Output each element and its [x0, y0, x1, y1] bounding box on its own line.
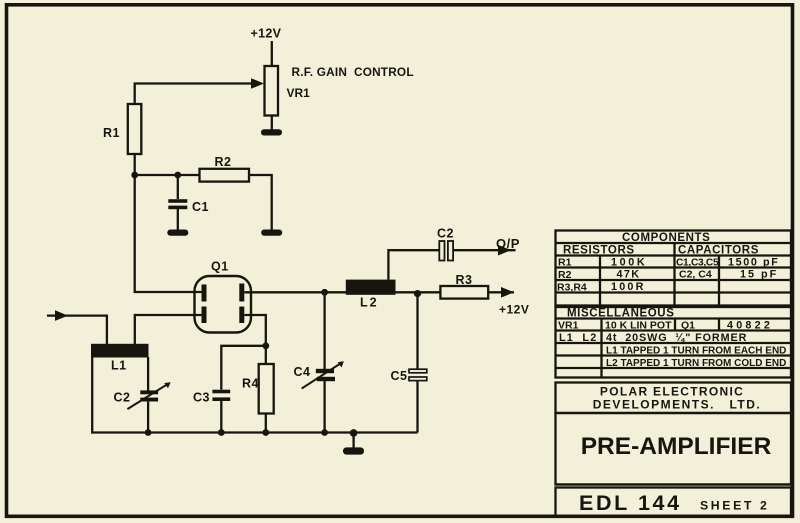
svg-text:C2, C4: C2, C4 [679, 269, 712, 281]
wire C5 top lead [416, 293, 418, 370]
wire C5 bottom to bus [416, 381, 418, 433]
wire C4 top lead [323, 292, 325, 370]
svg-text:C3: C3 [193, 391, 210, 405]
ground main [343, 447, 364, 454]
capacitor C3 plates [212, 390, 230, 394]
svg-text:R2: R2 [215, 155, 232, 169]
svg-text:DEVELOPMENTS. LTD.: DEVELOPMENTS. LTD. [593, 398, 761, 412]
capacitor C5 plates [409, 369, 427, 373]
C4 trimmer arrow [302, 364, 340, 389]
svg-text:VR1: VR1 [287, 86, 311, 100]
svg-text:C1: C1 [192, 200, 209, 214]
arrow wiper into VR1 [251, 78, 264, 89]
title box PRE-AMPLIFIER [556, 413, 792, 485]
svg-text:Q1: Q1 [681, 320, 695, 332]
wire C1 top lead [177, 175, 179, 199]
svg-text:O/P: O/P [496, 236, 520, 251]
svg-text:C1,C3,C5: C1,C3,C5 [676, 258, 719, 269]
resistor R4 body [259, 364, 274, 414]
svg-text:C4: C4 [294, 365, 311, 379]
wire VR1 top to +12V [271, 41, 273, 66]
svg-text:15 pF: 15 pF [740, 269, 778, 281]
potentiometer VR1 body [265, 66, 279, 116]
svg-text:CAPACITORS: CAPACITORS [678, 245, 759, 257]
drawing number box EDL 144 SHEET 2 [556, 488, 792, 517]
junction C4 tap [321, 289, 328, 296]
svg-text:L1: L1 [111, 359, 127, 373]
svg-text:1500 pF: 1500 pF [728, 257, 779, 269]
wire Q1 drain line to R3 [244, 291, 440, 293]
components table [556, 231, 792, 306]
ground under R2 wire [261, 230, 282, 236]
Q1 drain bar [239, 284, 244, 302]
resistor R1 body [128, 104, 142, 154]
junction source node [262, 342, 269, 349]
wire L1 right side to C2 [147, 357, 149, 391]
svg-text:R3: R3 [456, 273, 473, 287]
capacitor C4 (variable) plates [316, 369, 334, 373]
svg-text:4t 20SWG ¼" FORMER: 4t 20SWG ¼" FORMER [606, 332, 747, 344]
junction C5 tap [414, 290, 421, 297]
wire VR1 bottom [271, 116, 273, 130]
wire ground stem [352, 433, 354, 448]
svg-text:R3,R4: R3,R4 [557, 282, 587, 294]
svg-text:+12V: +12V [499, 303, 529, 317]
svg-text:L2 TAPPED 1 TURN FROM COLD E: L2 TAPPED 1 TURN FROM COLD END [606, 358, 786, 369]
capacitor C1 plates [168, 199, 187, 203]
wire C2 bottom to bus [147, 402, 149, 433]
wire L1 left side down to bus [92, 357, 417, 433]
wire Q1 source to R4 [244, 315, 265, 364]
svg-text:100R: 100R [611, 281, 646, 293]
svg-text:VR1: VR1 [558, 320, 579, 332]
wire R4 bottom to bus [265, 414, 267, 433]
svg-text:L2: L2 [360, 296, 379, 310]
input arrowhead [55, 310, 68, 321]
svg-text:R.F. GAIN CONTROL: R.F. GAIN CONTROL [292, 65, 414, 79]
svg-text:EDL 144: EDL 144 [579, 491, 682, 515]
svg-text:L1 L2: L1 L2 [559, 332, 597, 344]
wire node to R2 [135, 174, 200, 176]
junction ground tap on bus [350, 429, 358, 437]
wire C3 bottom to bus [220, 401, 222, 433]
capacitor C2 (variable) plates [140, 390, 158, 394]
svg-text:47K: 47K [617, 269, 641, 281]
inductor L1 bar [91, 344, 149, 358]
+12V arrowhead [501, 287, 514, 298]
junction C4/bus [321, 429, 328, 436]
double separator line [556, 483, 792, 485]
wire R1 bottom down to gate1 and right into Q1 [135, 154, 202, 292]
svg-text:MISCELLANEOUS: MISCELLANEOUS [567, 308, 674, 320]
Q1 gate1 bar [202, 285, 207, 302]
C2 trimmer arrow [127, 385, 166, 409]
svg-text:POLAR ELECTRONIC: POLAR ELECTRONIC [600, 385, 744, 399]
capacitor C2 (output coupling) plates [439, 241, 444, 261]
company box [556, 383, 792, 414]
wire R2 right to ground [249, 175, 272, 230]
svg-text:SHEET 2: SHEET 2 [700, 499, 769, 513]
wire L2 top to C2 coupling [388, 250, 439, 279]
junction R4/bus [262, 429, 269, 436]
resistor R3 body [440, 286, 488, 299]
svg-text:COMPONENTS: COMPONENTS [622, 232, 710, 244]
svg-text:R1: R1 [103, 126, 120, 140]
junction C3/bus [218, 429, 225, 436]
resistor R2 body [200, 169, 250, 182]
wire C4 bottom to bus [323, 380, 325, 433]
ground under C1 [167, 230, 188, 236]
wire R3 to +12V [488, 291, 514, 293]
inductor L2 bar [346, 280, 396, 295]
input arrow wire [47, 316, 107, 344]
svg-text:40822: 40822 [727, 320, 773, 332]
junction node at C1 tap [174, 172, 181, 179]
Q1 source bar [239, 307, 244, 324]
transistor Q1 envelope [195, 276, 252, 333]
junction node at R1 bottom [131, 172, 138, 179]
ground under VR1 [261, 129, 282, 135]
svg-text:R4: R4 [242, 377, 259, 391]
svg-text:+12V: +12V [251, 27, 282, 41]
svg-text:RESISTORS: RESISTORS [563, 245, 635, 257]
svg-text:R2: R2 [558, 269, 572, 281]
Q1 gate2 bar [202, 307, 207, 324]
wire C2 to O/P [453, 249, 515, 251]
svg-text:Q1: Q1 [211, 260, 229, 274]
svg-text:L1 TAPPED 1 TURN FROM EACH: L1 TAPPED 1 TURN FROM EACH END [606, 346, 786, 357]
wire source node to C3 [221, 346, 265, 390]
svg-text:C2: C2 [437, 227, 454, 241]
O/P arrowhead [498, 245, 511, 256]
svg-text:100K: 100K [611, 257, 647, 269]
svg-text:10 K LIN POT: 10 K LIN POT [605, 320, 672, 332]
wire R1 top to VR1 wiper [135, 84, 253, 105]
svg-text:PRE-AMPLIFIER: PRE-AMPLIFIER [581, 433, 772, 460]
svg-text:R1: R1 [558, 257, 572, 269]
svg-text:C2: C2 [114, 391, 131, 405]
wire L1 tap to gate2 [135, 315, 202, 344]
svg-text:C5: C5 [391, 369, 408, 383]
miscellaneous table [556, 307, 792, 378]
wire C1 bottom lead [177, 209, 179, 230]
junction C2/bus [145, 429, 152, 436]
